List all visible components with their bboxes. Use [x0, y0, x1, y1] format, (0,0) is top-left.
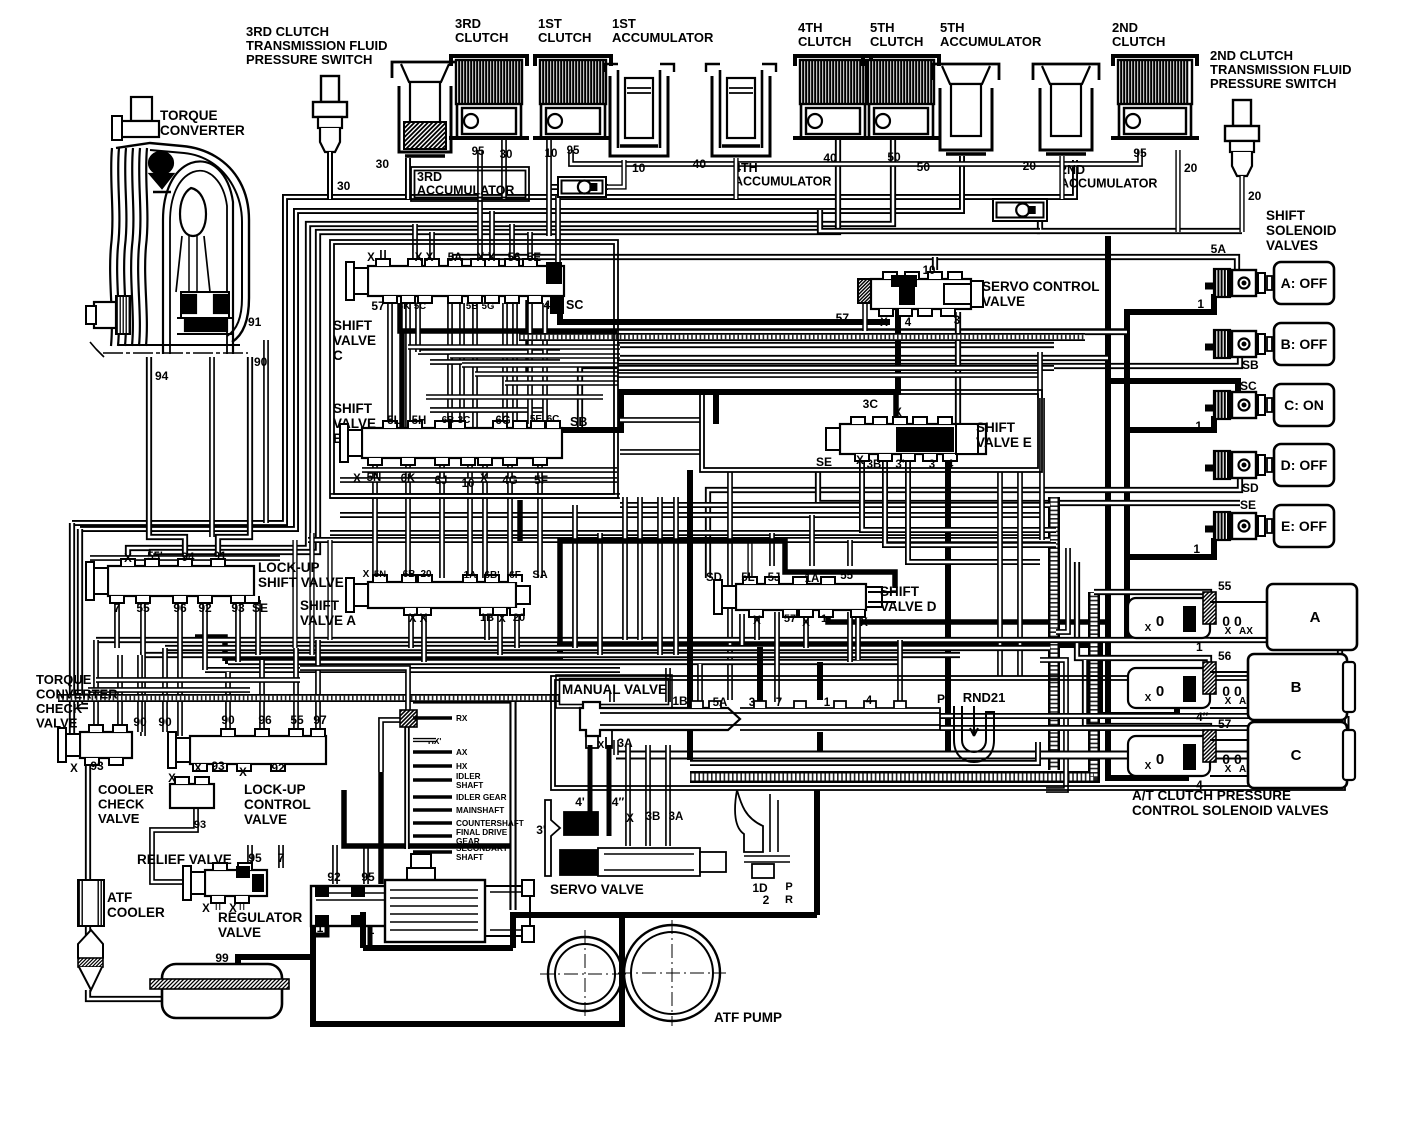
svg-text:X: X [626, 813, 634, 825]
svg-text:93: 93 [90, 759, 104, 773]
svg-text:5E: 5E [527, 252, 541, 264]
wire servo thick feeds [588, 745, 593, 814]
svg-text:92: 92 [198, 601, 212, 615]
svg-text:TRANSMISSION FLUID: TRANSMISSION FLUID [246, 38, 388, 53]
wire thick stub near 520 [517, 500, 523, 541]
svg-text:A: A [1310, 609, 1321, 626]
a/t clutch pressure control solenoid B [1128, 668, 1210, 708]
svg-text:SHAFT: SHAFT [456, 853, 483, 862]
svg-text:X: X [1145, 693, 1152, 704]
svg-text:20: 20 [1023, 159, 1037, 173]
svg-text:5A: 5A [448, 252, 463, 264]
svg-text:10: 10 [923, 265, 936, 277]
wire regulator risers [332, 845, 338, 884]
wire unit A feed 55 [1094, 592, 1209, 602]
wire cooler feed [85, 764, 91, 880]
svg-text:6G: 6G [495, 415, 510, 427]
wire top bus 2 [80, 156, 962, 529]
svg-text:90: 90 [158, 715, 172, 729]
wire thick valve B drop to lube [381, 720, 404, 772]
svg-text:99: 99 [215, 951, 229, 965]
wire tc inner drop [209, 357, 215, 537]
wire servo control valve drops [455, 306, 898, 430]
svg-text:6C: 6C [547, 414, 560, 425]
svg-text:C: ON: C: ON [1284, 397, 1324, 413]
wire valve E area verticals to manual box [997, 472, 1003, 676]
svg-text:P: P [785, 881, 792, 893]
svg-text:0: 0 [1156, 613, 1164, 630]
svg-text:X: X [894, 407, 902, 419]
wire top bus 3 [128, 140, 893, 556]
wire sc thick line [560, 296, 890, 322]
svg-text:7: 7 [776, 697, 782, 709]
wire under-box horizontals [620, 502, 1050, 508]
wire mid verticals extra [572, 505, 578, 648]
svg-text:57: 57 [1218, 717, 1232, 731]
svg-text:X: X [802, 617, 810, 629]
svg-text:1: 1 [821, 613, 827, 625]
svg-text:VALVE A: VALVE A [300, 613, 356, 628]
wire 20 2nd clutch [1175, 150, 1180, 232]
wire relief valve risers [247, 845, 253, 868]
svg-text:CLUTCH: CLUTCH [798, 34, 851, 49]
svg-text:VALVE D: VALVE D [880, 599, 937, 614]
svg-text:4: 4 [947, 457, 954, 471]
svg-text:X: X [498, 613, 506, 625]
svg-text:MANUAL VALVE: MANUAL VALVE [562, 682, 667, 697]
svg-text:RND21: RND21 [963, 690, 1006, 705]
shift valve C spool [368, 266, 564, 296]
svg-text:SERVO CONTROL: SERVO CONTROL [982, 279, 1100, 294]
3rd accumulator [392, 62, 458, 78]
svg-text:SHIFT: SHIFT [1266, 208, 1306, 223]
svg-text:CLUTCH: CLUTCH [870, 34, 923, 49]
wire left vertical 1 [69, 523, 75, 745]
svg-text:1ST: 1ST [538, 16, 562, 31]
svg-text:VALVE: VALVE [98, 811, 140, 826]
wire 30 from 3rd accumulator [405, 158, 411, 199]
shift valve B spool [362, 428, 562, 458]
svg-text:ACCUMULATOR: ACCUMULATOR [1060, 177, 1157, 191]
svg-text:SHIFT: SHIFT [976, 420, 1016, 435]
svg-text:CHECK: CHECK [36, 701, 83, 716]
manual valve label box [556, 675, 672, 708]
svg-text:50: 50 [887, 150, 901, 164]
svg-text:PRESSURE SWITCH: PRESSURE SWITCH [1210, 76, 1336, 91]
svg-text:92: 92 [327, 870, 341, 884]
servo control valve spool [858, 279, 871, 303]
shift valve E spool [840, 424, 986, 454]
svg-text:6B: 6B [403, 569, 416, 580]
svg-text:5B: 5B [466, 301, 478, 312]
svg-text:X: X [124, 553, 132, 565]
wire manual valve right pipes [940, 713, 1345, 719]
shift valve A spool [368, 582, 516, 608]
svg-text:B: B [1291, 679, 1302, 696]
svg-text:VALVES: VALVES [1266, 238, 1318, 253]
pressure switch 3rd clutch [321, 76, 339, 102]
svg-text:X: X [1225, 626, 1232, 637]
svg-text:5L: 5L [741, 572, 754, 584]
wire extra mid horizontals [617, 365, 1054, 371]
svg-text:3A: 3A [617, 736, 633, 750]
svg-text:5H: 5H [412, 415, 427, 427]
svg-text:X: X [860, 617, 868, 629]
svg-text:X: X [194, 763, 202, 775]
svg-text:0: 0 [1156, 751, 1164, 768]
wire top bus 4 [152, 140, 838, 556]
svg-text:2ND: 2ND [1112, 20, 1138, 35]
svg-text:90: 90 [221, 713, 235, 727]
wire sd line [708, 478, 1240, 578]
wire 30 drop 3rd clutch [501, 140, 507, 199]
wire tc box left [149, 357, 185, 566]
svg-text:LOCK-UP: LOCK-UP [258, 560, 320, 575]
svg-text:93: 93 [194, 819, 206, 831]
svg-text:4': 4' [575, 795, 585, 809]
4th clutch [795, 56, 871, 66]
svg-text:CHECK: CHECK [98, 797, 145, 812]
svg-text:3RD: 3RD [455, 16, 481, 31]
svg-text:CONVERTER: CONVERTER [160, 123, 245, 138]
wire check valve bus [1040, 218, 1242, 231]
svg-text:VALVE: VALVE [218, 925, 261, 940]
svg-text:94: 94 [155, 369, 169, 383]
svg-text:1: 1 [824, 697, 831, 709]
svg-text:SC: SC [1240, 379, 1257, 393]
svg-text:ACCUMULATOR: ACCUMULATOR [734, 175, 831, 189]
manual valve X 3A ports [586, 730, 612, 748]
svg-text:57: 57 [371, 299, 385, 313]
svg-text:93: 93 [231, 601, 245, 615]
svg-text:7: 7 [114, 601, 121, 615]
svg-text:3: 3 [954, 315, 960, 327]
svg-text:4K: 4K [398, 301, 410, 312]
label 3rd accumulator [411, 167, 529, 201]
2nd clutch [1113, 56, 1197, 66]
wire tc box right [218, 357, 250, 566]
svg-text:5TH: 5TH [870, 20, 895, 35]
wire 40 4th accumulator [733, 158, 738, 199]
wire left vertical 2 [80, 529, 88, 706]
wire feeds valve C top [412, 224, 418, 262]
svg-text:3C: 3C [863, 397, 879, 411]
svg-text:4G: 4G [502, 475, 517, 487]
wire 90 drops to lockup control [137, 655, 143, 732]
check valve between accumulators [608, 160, 624, 187]
svg-text:5E: 5E [530, 414, 543, 425]
svg-text:40: 40 [693, 157, 707, 171]
svg-text:ACCUMULATOR: ACCUMULATOR [612, 30, 714, 45]
servo valve box edges [814, 790, 820, 915]
svg-text:55': 55' [840, 570, 856, 582]
shift solenoid valve C [1205, 405, 1216, 412]
wire right corner pipes [1040, 660, 1066, 790]
svg-text:3B: 3B [646, 811, 661, 823]
svg-text:30: 30 [337, 179, 351, 193]
3rd clutch [451, 56, 527, 66]
svg-text:3RD: 3RD [417, 170, 442, 184]
svg-text:20: 20 [1184, 161, 1198, 175]
svg-text:LOCK-UP: LOCK-UP [244, 782, 306, 797]
wire valve C to B verticals [387, 303, 393, 428]
check valve upper right [993, 199, 1047, 221]
svg-text:4: 4 [905, 317, 912, 329]
svg-text:X: X [1145, 623, 1152, 634]
svg-text:55': 55' [147, 551, 163, 563]
regulator valve body [311, 854, 534, 942]
wire lockup control risers [225, 672, 231, 730]
svg-text:SHIFT: SHIFT [300, 598, 340, 613]
lock-up control valve spool [190, 736, 326, 764]
manual valve enclosure [551, 676, 1345, 790]
svg-text:SHIFT VALVE: SHIFT VALVE [258, 575, 344, 590]
svg-text:1B: 1B [480, 612, 494, 624]
wire thick regulator-lube bar [344, 790, 510, 846]
svg-text:B: OFF: B: OFF [1281, 336, 1328, 352]
svg-text:50: 50 [917, 160, 931, 174]
wire valve E drops [945, 455, 951, 756]
wire 20 2nd accumulator [1059, 156, 1064, 199]
relief valve spool [205, 870, 267, 896]
svg-text:55: 55 [136, 601, 150, 615]
svg-text:CLUTCH: CLUTCH [455, 30, 508, 45]
wire 10 line with check valve [548, 184, 608, 190]
svg-text:4TH: 4TH [798, 20, 823, 35]
svg-text:91: 91 [248, 315, 262, 329]
svg-text:E: OFF: E: OFF [1281, 518, 1327, 534]
svg-text:COOLER: COOLER [98, 782, 154, 797]
2nd accumulator [1033, 64, 1099, 80]
wire hatched vertical 1 [1048, 497, 1060, 770]
svg-text:1A: 1A [805, 573, 820, 585]
svg-text:0: 0 [1156, 683, 1164, 700]
a/t clutch pressure control solenoid C [1128, 736, 1210, 776]
svg-text:X X: X X [477, 252, 496, 264]
svg-text:X: X [753, 615, 761, 627]
svg-text:X: X [1225, 764, 1232, 775]
svg-text:SHAFT: SHAFT [456, 781, 483, 790]
svg-text:6J: 6J [435, 475, 448, 487]
svg-text:56: 56 [1218, 649, 1232, 663]
svg-text:C: C [333, 348, 343, 363]
wire valve D to manual extras [774, 612, 780, 702]
wire unit C feed 57 [1085, 660, 1209, 736]
wire mid horizontals right of box [617, 329, 1127, 335]
svg-text:55: 55 [1218, 579, 1232, 593]
atf pump small gear [548, 937, 622, 1011]
1st clutch [535, 56, 611, 66]
svg-text:P: P [937, 692, 945, 706]
5th clutch [863, 56, 939, 66]
svg-text:1: 1 [1196, 640, 1203, 654]
svg-text:SC: SC [566, 298, 583, 312]
svg-text:ATF PUMP: ATF PUMP [714, 1010, 782, 1025]
svg-text:5F: 5F [534, 473, 548, 487]
wire lube enclosure [413, 700, 513, 910]
atf cooler [78, 880, 104, 926]
wire thick bottom bus [616, 716, 1345, 755]
wire solenoid E thick [1127, 538, 1214, 557]
wire top bus 1 [72, 160, 1075, 523]
svg-text:2ND CLUTCH: 2ND CLUTCH [1210, 48, 1293, 63]
pressure switch 2nd clutch [1233, 100, 1251, 126]
wire manual valve top hollow drops [609, 692, 615, 702]
svg-text:C: C [1291, 747, 1302, 764]
wire valve A left area verticals [292, 540, 297, 648]
svg-text:95: 95 [472, 146, 485, 158]
shift valve E enclosure box [700, 390, 1042, 472]
svg-text:FINAL DRIVE: FINAL DRIVE [456, 828, 508, 837]
wire stippled long line y698 [58, 694, 560, 702]
1st accumulator [604, 64, 674, 72]
4th accumulator [706, 64, 776, 72]
svg-text:SE: SE [252, 601, 268, 615]
oil pan [162, 964, 282, 1018]
svg-text:5L: 5L [387, 415, 400, 427]
wire 10 drop to valve C [555, 196, 561, 262]
svg-text:X: X [353, 473, 361, 485]
svg-text:SE: SE [816, 455, 832, 469]
svg-text:96: 96 [258, 713, 272, 727]
svg-text:7: 7 [278, 851, 285, 865]
svg-text:CONVERTER: CONVERTER [36, 687, 118, 702]
svg-text:20: 20 [420, 569, 432, 580]
svg-text:CLUTCH: CLUTCH [1112, 34, 1165, 49]
svg-text:COUNTERSHAFT: COUNTERSHAFT [456, 819, 524, 828]
svg-text:90: 90 [133, 715, 147, 729]
svg-text:5J: 5J [768, 572, 781, 584]
wire hatched bus horizontal [690, 592, 1094, 777]
atf pump large gear [624, 925, 720, 1021]
svg-text:4″: 4″ [1196, 710, 1209, 724]
wire sb line [580, 356, 1240, 428]
svg-text:57: 57 [784, 613, 796, 625]
svg-text:1: 1 [1193, 542, 1200, 556]
5th accumulator [933, 64, 999, 80]
wire tc check valve risers [93, 640, 99, 726]
svg-text:5A: 5A [1211, 242, 1227, 256]
wire thick valve D feed 55prime [560, 541, 895, 645]
lubrication points tree [404, 727, 410, 849]
svg-text:96: 96 [173, 601, 187, 615]
svg-text:REGULATOR: REGULATOR [218, 910, 303, 925]
svg-text:PRESSURE SWITCH: PRESSURE SWITCH [246, 52, 372, 67]
wire solenoid C lower thick [1127, 416, 1214, 430]
svg-text:5C: 5C [414, 301, 426, 312]
svg-text:30: 30 [376, 157, 390, 171]
svg-text:20: 20 [513, 612, 525, 624]
svg-text:95: 95 [248, 851, 262, 865]
svg-text:X: X [367, 252, 375, 264]
svg-text:X: X [363, 569, 370, 580]
svg-text:6F: 6F [509, 570, 521, 581]
wire 95 drop to valve C [477, 150, 483, 262]
svg-text:3: 3 [929, 459, 935, 471]
atf filter [78, 930, 103, 966]
svg-text:RX: RX [456, 714, 468, 723]
svg-text:VALVE: VALVE [333, 333, 376, 348]
svg-text:VALVE E: VALVE E [976, 435, 1032, 450]
svg-text:92: 92 [271, 761, 285, 775]
svg-text:2: 2 [763, 893, 770, 907]
shift valve C and B enclosure box [330, 240, 618, 498]
wire left drops from lockup valve [114, 600, 120, 648]
svg-text:D: OFF: D: OFF [1281, 457, 1328, 473]
svg-text:10: 10 [545, 148, 558, 160]
svg-text:90: 90 [254, 355, 268, 369]
wire below-box vertical extras [673, 497, 679, 655]
svg-text:94: 94 [182, 552, 195, 564]
wire shift valve D top feeds [847, 540, 853, 566]
wire regulator thick 1b [368, 920, 373, 948]
svg-text:VALVE: VALVE [982, 294, 1025, 309]
shift valve D spool [736, 584, 866, 610]
svg-text:SA: SA [532, 569, 547, 581]
wire 57 riser servo cv [862, 303, 868, 331]
svg-text:20: 20 [1248, 189, 1262, 203]
svg-text:X: X [1145, 761, 1152, 772]
wire cooler check down [152, 808, 196, 882]
wire band extras 2 [362, 467, 617, 473]
svg-text:6B: 6B [442, 415, 455, 426]
svg-text:3B: 3B [867, 459, 882, 471]
svg-text:CONTROL: CONTROL [244, 797, 311, 812]
svg-text:X: X [598, 740, 605, 751]
svg-text:5TH: 5TH [940, 20, 965, 35]
svg-text:SOLENOID: SOLENOID [1266, 223, 1337, 238]
svg-text:91: 91 [214, 551, 227, 563]
svg-text:57: 57 [836, 311, 850, 325]
svg-text:5N: 5N [367, 472, 382, 484]
wire servo cv to valve E thick stub [893, 392, 899, 427]
svg-text:1A: 1A [464, 570, 477, 581]
wire left cluster extras [96, 677, 300, 683]
svg-text:X: X [202, 903, 210, 915]
svg-text:CLUTCH: CLUTCH [538, 30, 591, 45]
svg-text:X: X [480, 473, 488, 485]
cooler check valve [170, 784, 214, 808]
svg-text:95: 95 [361, 870, 375, 884]
lock-up shift valve spool [108, 566, 254, 596]
wire 30 from 3rd clutch pressure switch [327, 152, 333, 199]
wire se line [818, 472, 1240, 503]
wire inner box horizontals [418, 349, 560, 355]
svg-text:SD: SD [706, 572, 722, 584]
wire in-box extras [415, 303, 421, 352]
svg-text:1: 1 [1195, 419, 1202, 433]
wire lube square top feed [300, 668, 408, 710]
wire valve C port jogs [408, 344, 620, 350]
shift solenoid valve D [1205, 465, 1216, 472]
wire y763 pipe [690, 742, 1038, 763]
svg-text:AX: AX [1239, 626, 1253, 637]
svg-text:A/T CLUTCH PRESSURE: A/T CLUTCH PRESSURE [1132, 788, 1291, 803]
wire valve B bottom drops [372, 465, 378, 578]
svg-text:1B: 1B [672, 694, 688, 708]
svg-text:VALVE: VALVE [36, 716, 78, 731]
shift solenoid valve A [1205, 283, 1216, 290]
svg-text:X: X [168, 773, 176, 785]
wire thick valve C inner vertical [525, 300, 531, 375]
a/t clutch pressure control solenoid A [1128, 598, 1210, 638]
svg-text:COOLER: COOLER [107, 905, 165, 920]
shift solenoid valve B [1205, 344, 1216, 351]
wire thick mid bus to unit B [225, 645, 1177, 715]
svg-text:IDLER GEAR: IDLER GEAR [456, 793, 507, 802]
svg-text:SERVO VALVE: SERVO VALVE [550, 882, 644, 897]
svg-text:IDLER: IDLER [456, 772, 481, 781]
